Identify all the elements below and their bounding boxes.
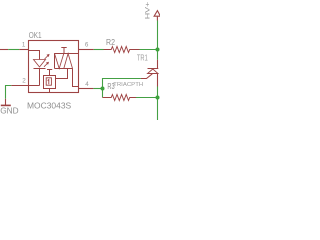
TR1 top bar bbox=[148, 68, 159, 70]
wire R2 to HV rail bbox=[140, 49, 158, 51]
op-amp: optocoupler box OK1 bbox=[29, 41, 79, 93]
svg-text:4: 4 bbox=[85, 81, 89, 88]
ZC top tick bbox=[47, 70, 52, 76]
svg-text:OK1: OK1 bbox=[29, 31, 42, 40]
wire to GND bbox=[6, 86, 12, 99]
LED anode lead bbox=[29, 51, 40, 60]
internal triac to pin 4 link bbox=[73, 69, 79, 87]
wire bbox=[8, 49, 19, 51]
transistor TR1 triac MT2 stub bbox=[157, 60, 159, 68]
internal gate link to ZC box bbox=[56, 69, 68, 79]
wire TR1 MT1 to bottom edge bbox=[157, 87, 159, 121]
resistor R3 bbox=[103, 95, 137, 101]
pin 4 stub bbox=[79, 88, 94, 90]
opto arrow 1 bbox=[45, 56, 48, 59]
ZC box inner bbox=[46, 78, 51, 85]
HV+ supply arrow bbox=[154, 11, 160, 21]
wire node up to gate bbox=[103, 79, 141, 89]
ZC digit 1 bbox=[48, 80, 49, 85]
internal triac gate tick bbox=[61, 48, 66, 54]
LED triangle bbox=[34, 60, 46, 68]
LED cathode bar bbox=[34, 68, 46, 70]
LED cathode lead bbox=[29, 69, 40, 86]
TR1 gate lead bbox=[141, 74, 152, 79]
wire pin4 to node bbox=[93, 88, 102, 90]
TR1 triangle bbox=[148, 69, 159, 74]
svg-text:1: 1 bbox=[22, 41, 26, 48]
TR1 MT1 stub bbox=[157, 74, 159, 87]
internal triac down triangle bbox=[55, 54, 64, 69]
svg-text:R2: R2 bbox=[106, 38, 115, 47]
node junction MT1/R3/out bbox=[156, 96, 160, 100]
svg-text:GND: GND bbox=[0, 106, 18, 116]
wire net at left edge to pin 1 bbox=[0, 49, 8, 51]
ground bbox=[1, 104, 11, 106]
svg-text:6: 6 bbox=[85, 42, 89, 49]
svg-text:TRIACPTH: TRIACPTH bbox=[113, 82, 143, 88]
pin 2 stub bbox=[11, 85, 28, 87]
resistor R2 bbox=[104, 47, 140, 53]
ZC box outer bbox=[44, 76, 56, 89]
GND pin stem bbox=[5, 99, 7, 105]
ZC bottom stem bbox=[49, 89, 51, 93]
wire R3 to rail junction bbox=[136, 97, 158, 99]
svg-text:MOC3043S: MOC3043S bbox=[27, 101, 72, 111]
node junction HV/R2/TR1 bbox=[156, 48, 160, 52]
pin 6 stub bbox=[79, 49, 94, 51]
pin 1 stub bbox=[19, 49, 28, 51]
node junction pin4/gate/R3 bbox=[101, 87, 105, 91]
internal triac bottom rail bbox=[55, 68, 73, 70]
wire HV arrow down to junction bbox=[157, 21, 159, 60]
internal triac left side bbox=[54, 54, 56, 69]
svg-text:HV+: HV+ bbox=[145, 2, 152, 20]
svg-text:TR1: TR1 bbox=[137, 54, 148, 63]
wire pin6 to R2 bbox=[94, 49, 104, 51]
opto arrow 2 bbox=[44, 64, 47, 67]
svg-text:2: 2 bbox=[22, 78, 26, 85]
wire node down to R3 bbox=[102, 89, 104, 98]
internal triac top rail bbox=[55, 53, 79, 55]
internal triac up triangle bbox=[64, 54, 73, 69]
